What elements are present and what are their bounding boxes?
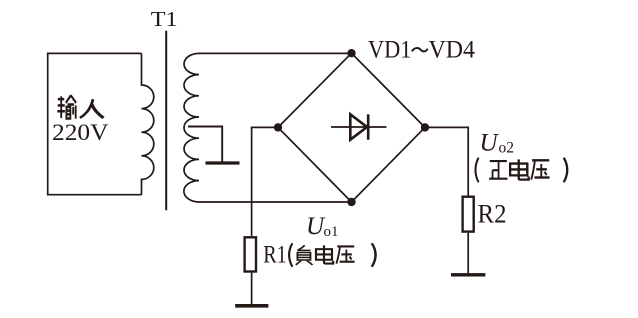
svg-text:o2: o2: [499, 140, 515, 157]
svg-text:R2: R2: [478, 199, 507, 228]
svg-text:o1: o1: [324, 224, 339, 240]
svg-text:VD4: VD4: [429, 35, 476, 64]
svg-text:R1: R1: [263, 239, 287, 268]
svg-text:T1: T1: [151, 7, 178, 31]
svg-text:VD1: VD1: [368, 35, 412, 64]
svg-text:U: U: [480, 129, 500, 156]
svg-text:220V: 220V: [52, 120, 109, 145]
